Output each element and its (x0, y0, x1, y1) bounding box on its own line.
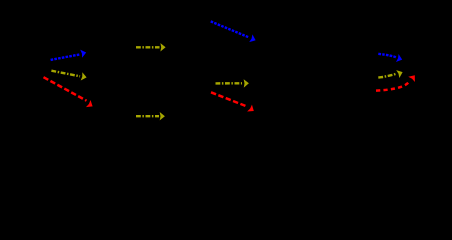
arrow olive E2 (horizontal, lower middle-left) (136, 112, 165, 120)
arrow blue D (down-right shallow, right cluster) (378, 54, 403, 64)
arrow red D (curved up-right, right cluster) (376, 73, 418, 91)
arrow olive B (horizontal, center) (216, 79, 249, 87)
arrow olive A (right, slight down, left cluster) (51, 71, 87, 82)
arrow red A (down-right, left cluster) (44, 77, 95, 110)
arrow olive D (up-right shallow, right cluster) (378, 68, 404, 78)
arrow red B (down-right, center) (211, 92, 256, 114)
arrow olive E1 (horizontal, upper middle-left) (136, 43, 166, 51)
arrow blue B (long down-right, center) (211, 21, 258, 44)
arrow blue A (up-right, left cluster) (51, 48, 88, 59)
